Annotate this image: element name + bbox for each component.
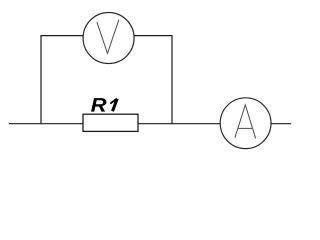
resistor R1 [83,114,138,131]
wire: left lead to resistor R1 [9,123,83,125]
ammeter [220,98,271,149]
wire: right lead from ammeter [271,123,291,125]
wire: left parallel branch up to voltmeter [41,36,83,124]
wire: resistor R1 to ammeter [138,123,220,125]
voltmeter [83,13,134,64]
label R1 [91,98,117,111]
wire: voltmeter to right parallel branch [134,36,172,124]
